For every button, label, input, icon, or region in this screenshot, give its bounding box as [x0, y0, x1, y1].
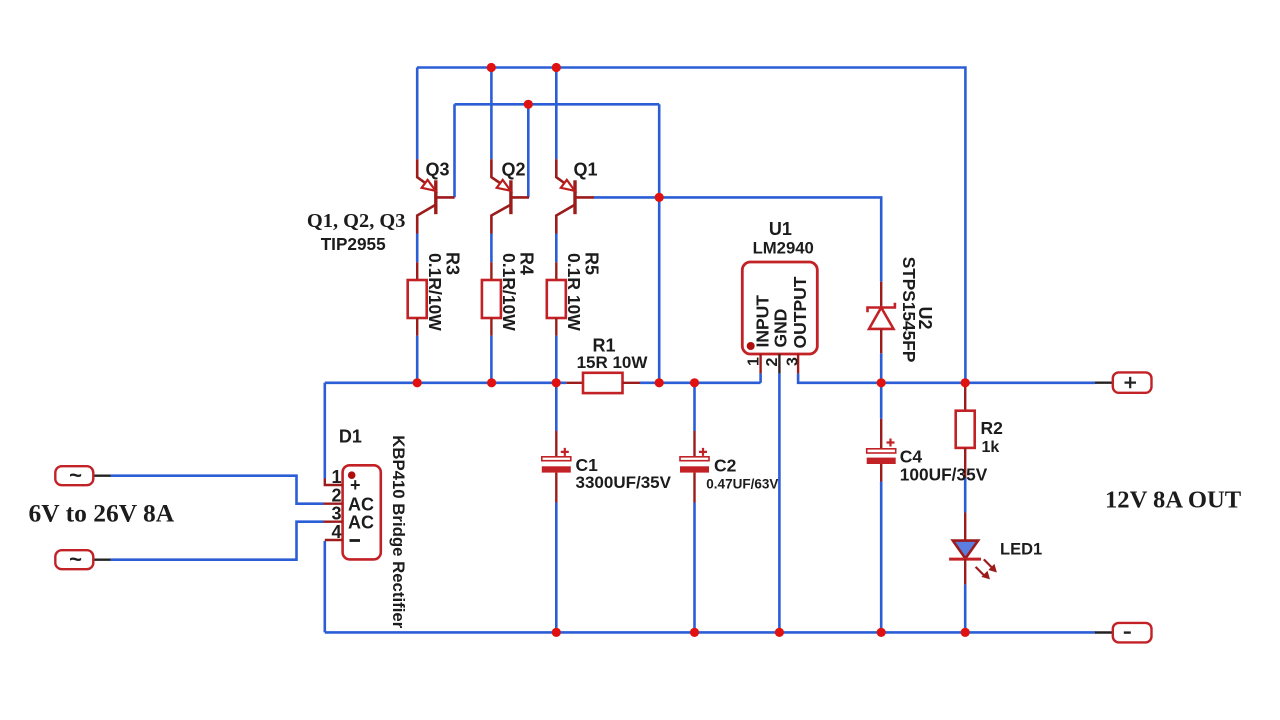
terminal - output: [1095, 623, 1152, 643]
svg-text:~: ~: [69, 463, 82, 488]
capacitor C1: [542, 431, 672, 503]
svg-text:KBP410 Bridge Rectifier: KBP410 Bridge Rectifier: [389, 435, 408, 629]
resistor R2: [956, 385, 1003, 478]
resistor R4: [482, 252, 537, 336]
diode U2 STPS1545FP: [868, 257, 935, 363]
svg-text:2: 2: [764, 358, 781, 367]
junction bottom bus GND: [775, 628, 784, 637]
wire mid vertical to main bus: [658, 104, 661, 383]
junction bottom bus LED: [961, 628, 970, 637]
svg-text:LM2940: LM2940: [753, 238, 814, 257]
wire Q3 emitter drop: [416, 68, 419, 160]
junction base bus Q2: [524, 100, 533, 109]
junction main bus mid: [655, 378, 664, 387]
wire U1 pin2 ground drop: [778, 373, 781, 632]
wire AC terminal 1 to D1 pin2: [111, 476, 324, 504]
junction main bus C2: [690, 378, 699, 387]
junction Q1 base line: [655, 193, 664, 202]
svg-text:Q3: Q3: [426, 160, 450, 180]
wire R3 bottom: [416, 336, 419, 383]
transistor Q3: [417, 159, 454, 233]
svg-text:12V 8A OUT: 12V 8A OUT: [1105, 487, 1242, 514]
note Q1, Q2, Q3 TIP2955: [307, 210, 406, 254]
junction bottom bus C4: [877, 628, 886, 637]
terminal AC2: [55, 547, 110, 572]
junction top bus Q1: [552, 63, 561, 72]
junction top bus Q2: [487, 63, 496, 72]
svg-text:Q1, Q2, Q3: Q1, Q2, Q3: [307, 210, 406, 232]
junction main bus U2 C4: [877, 378, 886, 387]
svg-text:0.1R/10W: 0.1R/10W: [425, 253, 445, 331]
svg-text:15R 10W: 15R 10W: [577, 353, 649, 372]
junction bottom bus C2: [690, 628, 699, 637]
transistor Q1: [556, 159, 597, 233]
svg-text:1: 1: [331, 467, 341, 487]
terminal + output: [1095, 372, 1152, 392]
wire C4 bottom: [880, 482, 883, 633]
wire U2 anode to main bus: [880, 353, 883, 383]
wire Q3 collector drop: [416, 234, 419, 263]
junction main bus R2: [961, 378, 970, 387]
wire C2 top: [693, 383, 696, 431]
resistor R1: [566, 335, 648, 393]
wire Q1 collector drop: [555, 234, 558, 263]
wire Q2 collector drop: [490, 234, 493, 263]
svg-text:Q2: Q2: [502, 160, 526, 180]
svg-text:TIP2955: TIP2955: [321, 234, 386, 254]
svg-text:2: 2: [331, 486, 341, 506]
node output label: [1105, 487, 1242, 514]
svg-text:1: 1: [746, 357, 763, 366]
junction main bus R4: [487, 378, 496, 387]
resistor R3: [408, 252, 463, 336]
svg-text:0.1R 10W: 0.1R 10W: [564, 253, 584, 331]
svg-text:Q1: Q1: [574, 160, 598, 180]
wire AC terminal 2 to D1 pin3: [111, 522, 324, 560]
svg-text:1k: 1k: [982, 439, 1000, 456]
svg-text:INPUT: INPUT: [752, 295, 772, 348]
wire U1 pin3 drop and output bus: [798, 373, 1095, 382]
wire bottom bus: [325, 631, 1096, 634]
wire R4 bottom: [490, 336, 493, 383]
wire R2 to LED: [964, 478, 967, 513]
svg-text:3300UF/35V: 3300UF/35V: [576, 473, 672, 492]
wire Q2 emitter drop: [490, 68, 493, 160]
junction main bus R3: [413, 378, 422, 387]
wire base bus: [455, 103, 660, 106]
capacitor C2: [680, 431, 778, 503]
svg-text:GND: GND: [770, 309, 790, 348]
resistor R5: [547, 252, 602, 336]
svg-text:D1: D1: [339, 427, 362, 447]
svg-text:0.1R/10W: 0.1R/10W: [499, 253, 519, 331]
wire C2 bottom: [693, 503, 696, 633]
wire Q1 base line to U2 cathode: [594, 197, 881, 281]
svg-text:~: ~: [69, 547, 82, 572]
node input label: [29, 499, 175, 528]
svg-text:R2: R2: [981, 418, 1004, 438]
junction main bus R5: [552, 378, 561, 387]
svg-text:+: +: [350, 475, 361, 495]
svg-text:OUTPUT: OUTPUT: [790, 276, 810, 348]
transistor Q2: [491, 159, 529, 233]
svg-text:3: 3: [785, 357, 802, 366]
svg-text:STPS1545FP: STPS1545FP: [899, 257, 919, 363]
svg-text:C2: C2: [714, 456, 737, 476]
wire top bus with right drop to output node: [417, 68, 965, 383]
wire C1 top: [555, 383, 558, 431]
wire Q1 emitter drop: [555, 68, 558, 160]
svg-text:C1: C1: [576, 455, 599, 475]
wire U1 pin1 drop: [759, 373, 762, 382]
svg-text:100UF/35V: 100UF/35V: [900, 464, 988, 484]
svg-text:4: 4: [331, 522, 341, 542]
regulator U1 LM2940: [742, 219, 817, 373]
wire D1 pin4 drop: [323, 541, 326, 632]
wire Q2 base drop: [527, 104, 530, 197]
svg-text:U1: U1: [769, 219, 792, 239]
svg-text:LED1: LED1: [1000, 541, 1042, 559]
svg-text:6V to 26V 8A: 6V to 26V 8A: [29, 499, 175, 528]
wire C1 bottom: [555, 503, 558, 633]
svg-text:AC: AC: [348, 495, 374, 515]
LED LED1: [949, 513, 1042, 585]
wire Q3 base drop: [453, 104, 456, 197]
wire C4 top: [880, 383, 883, 419]
bridge rectifier D1: [324, 427, 409, 629]
wire D1 pin1 riser: [323, 383, 326, 479]
svg-text:3: 3: [331, 504, 341, 524]
terminal AC1: [55, 463, 110, 488]
junction bottom bus C1: [552, 628, 561, 637]
wire main bus right of R1: [640, 381, 761, 384]
wire main bus left of R1: [325, 381, 567, 384]
wire LED bottom: [964, 584, 967, 632]
svg-text:AC: AC: [348, 513, 374, 533]
capacitor C4: [867, 419, 988, 484]
svg-text:0.47UF/63V: 0.47UF/63V: [706, 477, 778, 492]
wire R5 bottom: [555, 336, 558, 383]
